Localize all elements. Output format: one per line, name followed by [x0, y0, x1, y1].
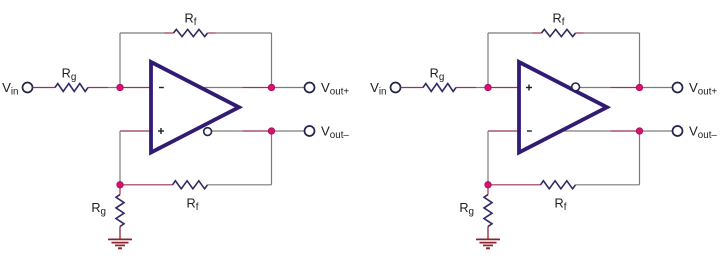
node: Vout- junction (b) — [636, 128, 642, 134]
wire: op-amp lower input to left corner (a) — [120, 130, 151, 132]
op-amp input sign lower (a: +) — [158, 130, 164, 132]
inversion bubble on op-amp output (b) — [572, 83, 580, 91]
wire: op-amp output (lower) to Vout- node (b) — [561, 130, 611, 132]
op-amp input sign upper (a: -) — [159, 87, 164, 89]
inversion bubble on op-amp output (a) — [204, 128, 212, 136]
wire: Rg to ground (b) — [487, 227, 489, 240]
input terminal Vin (a) — [23, 83, 33, 93]
resistor Rf (b bottom feedback) — [541, 181, 576, 189]
wire: Vin terminal to Rg (a) — [33, 87, 56, 89]
resistor Rg (b input) — [423, 84, 456, 92]
op-amp input sign lower (b: -) — [527, 130, 532, 132]
wire: input node up to top rail (b) — [487, 33, 489, 88]
output terminal Vout- (a) — [305, 126, 315, 136]
resistor Rg (a input) — [55, 84, 88, 92]
wire: left corner down to bottom node (a) — [119, 131, 121, 185]
wire: bottom node to Rg (a ground leg) — [119, 185, 121, 195]
op-amp U2 (b) — [519, 62, 607, 153]
wire: bottom rail right segment (b) — [576, 184, 640, 186]
ground (a) — [108, 239, 132, 248]
node: Vout+ junction (b) — [636, 84, 642, 90]
wire: top rail down to Vout+ node (b) — [639, 33, 641, 88]
wire: op-amp output (upper) to Vout+ node (a) — [201, 87, 243, 89]
wire: Vout+ node to terminal (a) — [275, 87, 305, 89]
resistor Rf (b top feedback) — [542, 29, 576, 36]
output terminal Vout- (b) — [673, 126, 683, 136]
wire: Rg to ground (a) — [119, 227, 121, 240]
wire: Rg to input node (a) — [88, 87, 108, 89]
node: Vout- junction (a) — [268, 128, 274, 134]
node: bottom feedback junction (a) — [117, 182, 123, 188]
wire: top rail down to Vout+ node (a) — [271, 33, 273, 88]
wire: bottom rail left segment (b) — [488, 184, 541, 186]
wire: left corner down to bottom node (b) — [487, 131, 489, 185]
wire: top rail right segment (a) — [208, 32, 216, 34]
output terminal Vout+ (b) — [673, 83, 683, 93]
wire: top rail left segment (a) — [120, 32, 165, 34]
wire: input node to op-amp input (b) — [488, 87, 519, 89]
wire: Vout+ node to terminal (b) — [643, 87, 673, 89]
wire: Vin terminal to Rg (b) — [401, 87, 424, 89]
wire: bottom rail up to Vout- node (b) — [639, 131, 641, 185]
output terminal Vout+ (a) — [305, 83, 315, 93]
op-amp U1 (a) — [151, 62, 239, 153]
input terminal Vin (b) — [391, 83, 401, 93]
ground (b) — [476, 239, 500, 248]
wire: bottom rail right segment (a) — [208, 184, 272, 186]
wire: bottom node to Rg (b ground leg) — [487, 185, 489, 195]
wire: Vout- node to terminal (b) — [643, 130, 673, 132]
wire: bottom rail up to Vout- node (a) — [271, 131, 273, 185]
wire: Vout- node to terminal (a) — [275, 130, 305, 132]
node: Vout+ junction (a) — [268, 84, 274, 90]
wire: op-amp lower input to left corner (b) — [488, 130, 519, 132]
resistor Rf (a bottom feedback) — [173, 181, 208, 189]
wire: top rail right segment (b) — [576, 32, 584, 34]
resistor Rg (b ground leg) — [484, 195, 492, 227]
node: input summing junction (b) — [485, 84, 491, 90]
wire: Rg to input node (b) — [456, 87, 476, 89]
wire: bottom rail left segment (a) — [120, 184, 173, 186]
wire: input node to op-amp input (a) — [120, 87, 151, 89]
wire: op-amp inverted output (lower) to Vout- node (a) — [212, 130, 243, 132]
resistor Rf (a top feedback) — [174, 29, 208, 36]
wire: op-amp inverted output (upper) to Vout+ node (b) — [580, 87, 611, 89]
node: input summing junction (a) — [117, 84, 123, 90]
resistor Rg (a ground leg) — [116, 195, 124, 227]
node: bottom feedback junction (b) — [485, 182, 491, 188]
op-amp input sign upper (b: +) — [526, 87, 532, 89]
wire: top rail left segment (b) — [488, 32, 533, 34]
wire: input node up to top rail (a) — [119, 33, 121, 88]
